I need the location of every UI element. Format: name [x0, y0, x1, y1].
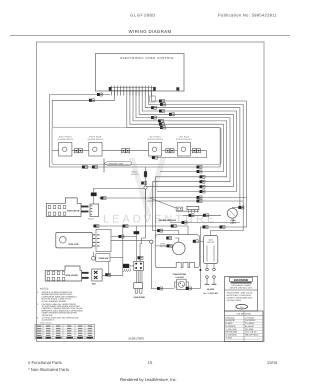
cord body: [134, 283, 143, 289]
lamp wire: [93, 226, 188, 235]
convection motor: [173, 242, 186, 255]
svg-text:MOTOR: MOTOR: [160, 245, 168, 248]
row connector 2: [122, 149, 126, 153]
igniter row enclosure: [52, 128, 221, 165]
svg-text:PWR CORD: PWR CORD: [134, 296, 146, 299]
svg-text:NOTED FIRST, STRIPE NEXT.: NOTED FIRST, STRIPE NEXT.: [227, 294, 252, 297]
svg-text:DOOR SW: DOOR SW: [99, 257, 109, 260]
fan wires: [157, 287, 160, 290]
motor feed wires: [175, 238, 179, 242]
bus wire 7: [130, 90, 224, 171]
svg-text:ALL MODELS.: ALL MODELS.: [42, 319, 55, 322]
lock box feed: [200, 241, 204, 243]
svg-text:IGNITER SWITCH: IGNITER SWITCH: [176, 138, 192, 141]
svg-text:GLGF388D: GLGF388D: [130, 13, 156, 18]
igniter switch S3: [149, 143, 162, 157]
spark module box: [176, 207, 183, 211]
junction node: [150, 240, 153, 243]
svg-text:IGNITER SWITCH: IGNITER SWITCH: [147, 138, 163, 141]
svg-text:P=PURPLE: P=PURPLE: [245, 319, 256, 322]
valve prongs: [81, 206, 89, 208]
wire gauge table: [35, 324, 94, 339]
svg-text:FAN MTR: FAN MTR: [176, 276, 185, 279]
door sw link wire: [110, 256, 123, 258]
lite housing wires right: [111, 236, 137, 238]
watermark logo V: [129, 158, 152, 216]
broil valve wire: [102, 228, 123, 276]
ignitor fuse: [103, 159, 105, 173]
svg-text:LB=LT BLUE: LB=LT BLUE: [245, 331, 257, 334]
svg-text:RIGHT REAR: RIGHT REAR: [90, 136, 102, 139]
svg-text:TOD: TOD: [92, 282, 97, 285]
EOC connector P1: [110, 87, 155, 90]
cord connector: [138, 256, 141, 259]
ignitor fuse label: [104, 161, 132, 165]
svg-text:11/04: 11/04: [267, 360, 278, 365]
warning oval logo: [236, 304, 248, 309]
svg-text:G=GREEN: G=GREEN: [226, 325, 236, 328]
svg-text:MOTOR: MOTOR: [207, 241, 215, 244]
broil gas valve: [45, 266, 81, 281]
svg-text:GAS VALVE: GAS VALVE: [66, 274, 79, 277]
svg-text:IGNITER SWITCH: IGNITER SWITCH: [88, 138, 104, 141]
bus wire 4 to node: [139, 90, 233, 187]
svg-text:WARNING: WARNING: [234, 278, 249, 282]
svg-text:SWITCH: SWITCH: [131, 173, 139, 176]
svg-text:OVN VALVE: OVN VALVE: [67, 210, 80, 213]
bus wire 2 oven light feed: [145, 90, 240, 207]
plunger switch: [92, 256, 96, 260]
svg-text:R=RED: R=RED: [226, 322, 233, 325]
svg-text:NOTES:: NOTES:: [40, 288, 49, 291]
igniter switch S2: [89, 143, 102, 157]
table cell text: [37, 326, 41, 327]
return wire y197: [150, 196, 247, 198]
igniter switch S4: [177, 143, 190, 157]
svg-text:BEFORE SERVICING UNIT.: BEFORE SERVICING UNIT.: [230, 287, 253, 290]
wire left B: [52, 90, 114, 127]
svg-text:IGNITOR FUSE: IGNITOR FUSE: [109, 162, 124, 165]
svg-text:LEFT FRONT: LEFT FRONT: [149, 136, 161, 139]
oven lite switch box: [56, 232, 93, 248]
svg-text:SPARK MODULE: SPARK MODULE: [159, 219, 177, 222]
hook connector: [152, 156, 155, 159]
svg-text:V=VIOLET: V=VIOLET: [245, 316, 255, 319]
warning box: [225, 277, 258, 312]
table bottom bold row: [37, 337, 43, 338]
svg-text:O=ORANGE: O=ORANGE: [226, 334, 238, 337]
power cord terminals: [134, 261, 144, 270]
svg-text:IGNITER SWITCH: IGNITER SWITCH: [57, 138, 73, 141]
bus wire 3: [142, 90, 236, 191]
svg-text:316417809: 316417809: [128, 336, 144, 340]
svg-text:W=WHITE: W=WHITE: [226, 319, 236, 322]
svg-text:ELECTRONIC OVEN CONTROL: ELECTRONIC OVEN CONTROL: [120, 56, 174, 60]
connector left A: [97, 93, 100, 96]
svg-text:CONVECTION: CONVECTION: [173, 273, 187, 276]
color code table: [225, 311, 264, 342]
return wire y201: [147, 200, 243, 202]
ground lug: [123, 264, 129, 268]
bus wire 6 conv dropper 2: [133, 90, 227, 238]
svg-text:WIRE GAUGE: WIRE GAUGE: [40, 322, 52, 325]
header rule: [10, 35, 290, 37]
valve connector block: [90, 204, 99, 217]
svg-text:WB=WHT/BLK: WB=WHT/BLK: [245, 334, 259, 337]
bus wire 5 conv dropper: [136, 90, 230, 235]
fuse wire connectors: [82, 166, 85, 169]
svg-text:* Non-Illustrated Parts: * Non-Illustrated Parts: [28, 367, 69, 372]
main diagram border: [37, 42, 265, 342]
bus wire 8 igniter fuse feed: [50, 90, 221, 167]
oven light comp: [227, 208, 237, 218]
svg-text:& L.T. STYLES: & L.T. STYLES: [203, 292, 218, 295]
svg-text:VALVE: VALVE: [88, 217, 95, 220]
svg-text:LIGHT: LIGHT: [230, 221, 237, 224]
svg-text:B=BLACK: B=BLACK: [226, 316, 236, 319]
connector left B: [89, 99, 92, 102]
svg-text:RIGHT FRONT: RIGHT FRONT: [59, 136, 73, 139]
row wire: [52, 150, 59, 152]
svg-text:TRACER WIRE - WIRE COLOR: TRACER WIRE - WIRE COLOR: [227, 291, 253, 294]
svg-text:BR=BROWN: BR=BROWN: [226, 331, 238, 334]
plug pins: [206, 264, 208, 269]
bus wire 1 lock feed: [148, 90, 243, 235]
svg-text:LEFT REAR: LEFT REAR: [179, 136, 190, 139]
spark module bar: [187, 206, 199, 209]
lock motor box: [204, 236, 218, 264]
node junction: [144, 186, 147, 189]
door switch dropper: [145, 167, 147, 186]
svg-text:BL=BLUE: BL=BLUE: [245, 325, 255, 328]
svg-text:PK=PINK: PK=PINK: [245, 328, 254, 331]
svg-text:YELLOW STRIPE.: YELLOW STRIPE.: [227, 299, 242, 302]
junction dot: [199, 269, 201, 271]
svg-text:WIRING DIAGRAM: WIRING DIAGRAM: [129, 29, 172, 34]
wire valve up: [94, 189, 144, 205]
svg-text:EXAMPLE: GREEN WIRE WITH: EXAMPLE: GREEN WIRE WITH: [227, 297, 254, 300]
convection enclosure: [155, 235, 199, 268]
svg-text:GY=GRAY: GY=GRAY: [245, 322, 255, 325]
svg-text:IN THE ORIGINAL WIRING.: IN THE ORIGINAL WIRING.: [42, 300, 68, 303]
svg-text:SERVICING.: SERVICING.: [42, 314, 54, 317]
drop wire to cord: [140, 189, 146, 261]
svg-text:OVN LITE: OVN LITE: [69, 243, 80, 246]
row connector 1: [74, 149, 78, 153]
svg-text:Y=YELLOW: Y=YELLOW: [226, 328, 237, 331]
svg-text:# Functional Parts: # Functional Parts: [28, 360, 62, 365]
spark lower wire: [170, 222, 240, 224]
svg-text:Rendered by LeadVenture, Inc.: Rendered by LeadVenture, Inc.: [120, 377, 177, 382]
row connector 4: [192, 149, 196, 153]
cord vertical connector: [134, 231, 140, 234]
small latch box: [96, 254, 110, 262]
wire left to fuse loop: [50, 95, 111, 168]
svg-text:15 AMP: 15 AMP: [207, 288, 215, 291]
svg-text:T=TAN: T=TAN: [226, 336, 233, 339]
oven gas valve: [46, 198, 81, 217]
lite connector housing: [96, 229, 111, 251]
svg-text:Publication No: 5995422911: Publication No: 5995422911: [218, 13, 277, 18]
svg-text:15: 15: [148, 360, 153, 365]
wire valve right: [99, 198, 176, 208]
cord wires: [135, 271, 137, 283]
igniter switch S1: [59, 143, 72, 157]
electronic oven control: [96, 54, 185, 92]
bus wire 0 fan feed: [151, 90, 246, 288]
connector label box: [150, 96, 155, 102]
row connector 3: [166, 149, 170, 153]
broil valve connector block: [92, 269, 102, 281]
spark module connectors: [176, 210, 199, 212]
